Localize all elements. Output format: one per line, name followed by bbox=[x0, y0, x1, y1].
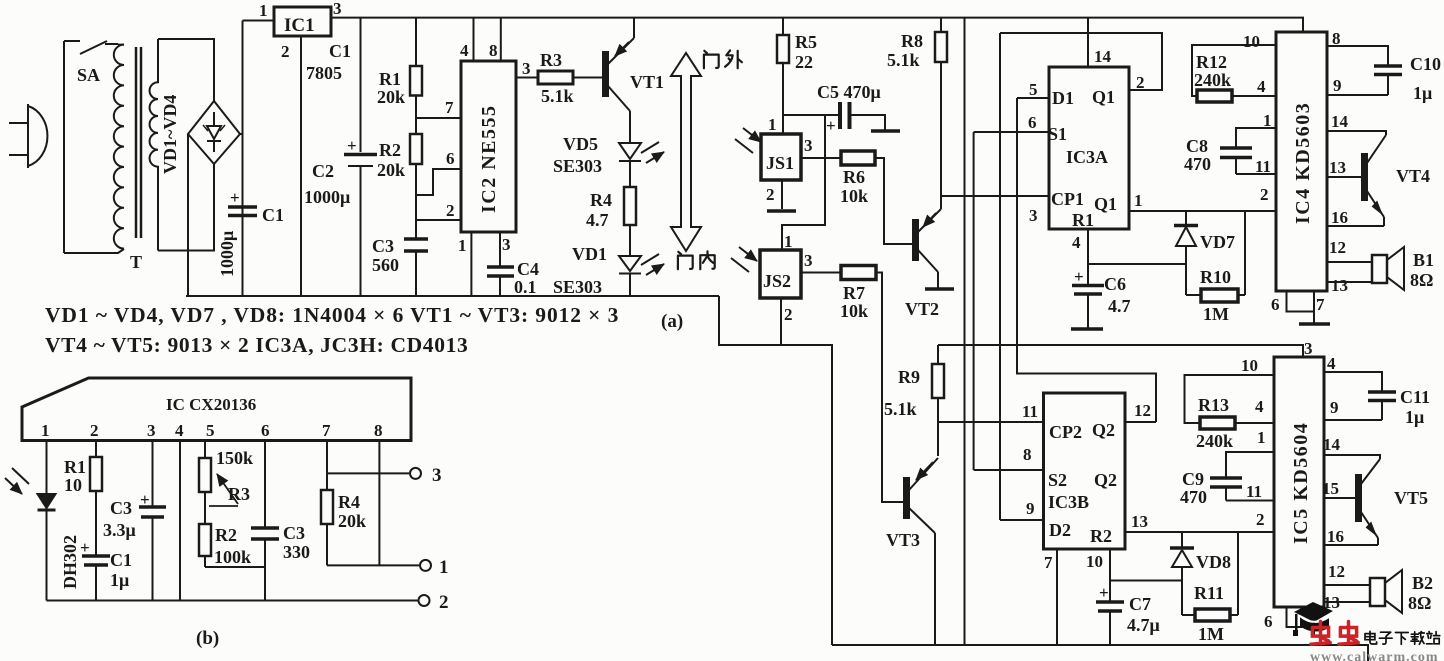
svg-text:+: + bbox=[347, 136, 357, 155]
svg-text:(a): (a) bbox=[661, 311, 683, 332]
svg-text:R2: R2 bbox=[379, 140, 401, 160]
AC plug SA bbox=[9, 104, 47, 168]
watermark site name bbox=[1365, 631, 1440, 644]
svg-text:6: 6 bbox=[1264, 612, 1273, 631]
wire IC3B pin7 down bbox=[1056, 549, 1058, 645]
wire JS1 pin1 to JS2 pin1 bbox=[782, 115, 825, 250]
wire pin1 DH302 bbox=[46, 441, 48, 494]
svg-text:4.7: 4.7 bbox=[1108, 296, 1131, 316]
svg-text:14: 14 bbox=[1331, 112, 1349, 131]
capacitor C3 560 bbox=[404, 220, 428, 296]
svg-text:1: 1 bbox=[1134, 191, 1143, 210]
wire JS1 pin3 bbox=[801, 157, 841, 159]
svg-text:C3: C3 bbox=[283, 523, 305, 543]
svg-text:16: 16 bbox=[1327, 527, 1344, 546]
svg-text:3: 3 bbox=[804, 251, 813, 270]
svg-text:9: 9 bbox=[1333, 76, 1342, 95]
svg-text:VT2: VT2 bbox=[905, 299, 939, 319]
svg-text:13: 13 bbox=[1331, 276, 1348, 295]
svg-text:1: 1 bbox=[439, 557, 449, 578]
photo interrupter JS1 bbox=[761, 134, 801, 180]
speaker B2 bbox=[1324, 601, 1370, 603]
svg-text:4: 4 bbox=[1072, 233, 1081, 252]
svg-text:C7: C7 bbox=[1129, 594, 1151, 614]
svg-text:D1: D1 bbox=[1052, 88, 1074, 108]
svg-text:VD5: VD5 bbox=[563, 134, 598, 154]
svg-text:R3: R3 bbox=[228, 484, 250, 504]
svg-text:SE303: SE303 bbox=[553, 156, 602, 176]
svg-text:C6: C6 bbox=[1104, 274, 1126, 294]
svg-text:8Ω: 8Ω bbox=[1410, 270, 1433, 290]
svg-text:10k: 10k bbox=[840, 301, 868, 321]
svg-text:(b): (b) bbox=[196, 628, 219, 649]
svg-text:4: 4 bbox=[175, 421, 184, 440]
svg-text:12: 12 bbox=[1134, 401, 1151, 420]
bottom ground rail bbox=[832, 645, 1368, 661]
ground C5 bbox=[871, 129, 900, 133]
svg-text:CP1: CP1 bbox=[1051, 189, 1084, 209]
wire Q1 to D2 vertical bbox=[999, 33, 1001, 520]
svg-text:1: 1 bbox=[784, 232, 793, 251]
capacitor C10 1u bbox=[1374, 66, 1402, 75]
svg-text:3: 3 bbox=[1304, 339, 1313, 358]
wire pin8 bbox=[378, 441, 380, 566]
svg-text:R7: R7 bbox=[843, 283, 865, 303]
svg-text:IC3B: IC3B bbox=[1048, 492, 1089, 512]
speaker B1 bbox=[1327, 281, 1372, 283]
svg-text:IC3A: IC3A bbox=[1066, 147, 1108, 167]
svg-text:VT3: VT3 bbox=[886, 530, 920, 550]
potentiometer 150k R3 bbox=[204, 441, 206, 459]
wire JS2 pin3 bbox=[801, 272, 841, 274]
svg-text:+: + bbox=[230, 188, 240, 207]
IC5 KD5604 box bbox=[1274, 357, 1324, 607]
svg-text:2: 2 bbox=[446, 201, 455, 220]
wire NE555 pin2 bbox=[416, 195, 461, 220]
diode VD8 bbox=[1172, 532, 1192, 615]
wire IC4 pin13 bbox=[1327, 176, 1362, 178]
svg-text:1: 1 bbox=[1263, 111, 1272, 130]
wire bridge left output down bbox=[187, 134, 189, 296]
label door-inside bbox=[678, 251, 715, 269]
svg-text:3: 3 bbox=[522, 59, 531, 78]
svg-text:2: 2 bbox=[784, 305, 793, 324]
svg-text:VD1 ~ VD4, VD7 , VD8: 1N4004 ×: VD1 ~ VD4, VD7 , VD8: 1N4004 × 6 VT1 ~ V… bbox=[45, 303, 619, 327]
svg-text:JS1: JS1 bbox=[766, 153, 794, 173]
svg-text:7: 7 bbox=[1044, 553, 1053, 572]
svg-text:C8: C8 bbox=[1186, 136, 1208, 156]
svg-text:150k: 150k bbox=[216, 448, 253, 468]
svg-text:VT1: VT1 bbox=[630, 72, 664, 92]
svg-text:5.1k: 5.1k bbox=[887, 50, 920, 70]
svg-text:SE303: SE303 bbox=[553, 277, 602, 297]
svg-text:C2: C2 bbox=[312, 161, 334, 181]
photo interrupter JS2 bbox=[760, 250, 801, 298]
svg-text:22: 22 bbox=[795, 52, 813, 72]
svg-text:10k: 10k bbox=[840, 186, 868, 206]
svg-text:1: 1 bbox=[41, 421, 50, 440]
wire D2 bbox=[1000, 519, 1044, 521]
wire +V line to IC1 bbox=[242, 21, 244, 297]
wire S2 bbox=[974, 469, 1044, 471]
resistor R4 20k bbox=[326, 473, 328, 490]
transformer secondary winding bbox=[150, 39, 158, 251]
wire NE555 pin6 step bbox=[416, 169, 461, 195]
IC4 KD5603 box bbox=[1276, 32, 1327, 291]
transformer core bbox=[136, 47, 141, 238]
capacitor C3 330 bbox=[264, 441, 266, 528]
wire IC5 pin4 right bbox=[1324, 372, 1382, 391]
LED VD5 SE303 bbox=[629, 111, 631, 143]
svg-text:B2: B2 bbox=[1412, 573, 1433, 593]
capacitor C4 0.1 bbox=[487, 232, 514, 296]
svg-text:15: 15 bbox=[1322, 479, 1339, 498]
svg-text:4.7: 4.7 bbox=[586, 210, 609, 230]
svg-text:9: 9 bbox=[1330, 398, 1339, 417]
svg-text:IC1: IC1 bbox=[284, 15, 315, 36]
wire D1 stub bbox=[1017, 97, 1049, 99]
resistor R1 10 bbox=[95, 441, 97, 458]
wire pin4 bbox=[179, 441, 181, 601]
capacitor C1 1000u bbox=[228, 207, 257, 216]
wire IC3B pin12 bbox=[1125, 421, 1156, 423]
wire IC4 pin14 bbox=[1327, 131, 1386, 135]
op-amp IC3A flip-flop box bbox=[1049, 67, 1129, 229]
svg-text:6: 6 bbox=[446, 149, 455, 168]
wire IC3A pin4 down bbox=[1087, 229, 1089, 284]
resistor R2 20k bbox=[415, 118, 417, 195]
svg-text:+: + bbox=[826, 116, 836, 135]
svg-text:11: 11 bbox=[1022, 402, 1038, 421]
svg-text:C1: C1 bbox=[110, 550, 132, 570]
ground IC5 pins 6 7 bbox=[1287, 607, 1315, 635]
resistor R13 240k loop bbox=[1185, 375, 1275, 423]
svg-text:R9: R9 bbox=[898, 367, 920, 387]
svg-text:R2: R2 bbox=[1090, 526, 1112, 546]
svg-text:R1: R1 bbox=[64, 457, 86, 477]
bottom rail power section bbox=[186, 295, 719, 297]
wire IC4 pin8 bbox=[1327, 46, 1388, 65]
switch SA bbox=[64, 41, 118, 54]
svg-text:2: 2 bbox=[1136, 73, 1145, 92]
svg-text:www.calwarm.com: www.calwarm.com bbox=[1310, 650, 1439, 661]
resistor R6 10k bbox=[841, 151, 875, 165]
svg-text:12: 12 bbox=[1329, 238, 1346, 257]
transistor VT4 bbox=[1362, 154, 1367, 200]
svg-text:4: 4 bbox=[1327, 354, 1336, 373]
wire IC4 pin16 bbox=[1327, 225, 1384, 227]
wire Q1 output pin1 bbox=[1129, 210, 1276, 212]
svg-text:Q1: Q1 bbox=[1094, 194, 1117, 214]
capacitor C6 4.7 bbox=[1072, 286, 1104, 295]
svg-text:1M: 1M bbox=[1203, 304, 1229, 324]
svg-text:12: 12 bbox=[1328, 562, 1345, 581]
svg-text:C5 470μ: C5 470μ bbox=[817, 82, 881, 102]
svg-text:1: 1 bbox=[1257, 428, 1266, 447]
resistor R2 100k bbox=[199, 524, 211, 556]
svg-text:14: 14 bbox=[1323, 435, 1341, 454]
wire S1 to S2 vertical bbox=[973, 132, 975, 470]
wire IC1 pin2 down bbox=[300, 36, 302, 296]
resistor R10 1M bbox=[1186, 294, 1201, 296]
svg-text:10: 10 bbox=[64, 475, 82, 495]
wire IC5 pin12 bbox=[1324, 584, 1370, 586]
svg-text:Q2: Q2 bbox=[1094, 470, 1117, 490]
svg-text:7805: 7805 bbox=[306, 63, 342, 83]
watermark chongchong red bbox=[1311, 622, 1358, 645]
capacitor C11 1u bbox=[1368, 392, 1396, 401]
svg-text:5: 5 bbox=[1029, 80, 1038, 99]
transformer T primary winding bbox=[114, 45, 124, 249]
wire IC3B pin10 down with C7 bbox=[1109, 549, 1111, 601]
resistor R12 240k loop bbox=[1192, 45, 1276, 96]
svg-text:14: 14 bbox=[1094, 47, 1112, 66]
svg-text:R5: R5 bbox=[795, 32, 817, 52]
wire D1 to Q2-bar loop bbox=[1017, 98, 1156, 422]
svg-text:D2: D2 bbox=[1049, 520, 1071, 540]
svg-text:R8: R8 bbox=[901, 31, 923, 51]
svg-text:5.1k: 5.1k bbox=[541, 86, 574, 106]
svg-text:4: 4 bbox=[1255, 397, 1264, 416]
svg-text:R1: R1 bbox=[379, 69, 401, 89]
svg-text:0.1: 0.1 bbox=[514, 277, 537, 297]
svg-text:R10: R10 bbox=[1200, 267, 1231, 287]
wire JS2 pin2 bbox=[780, 298, 782, 344]
wire C6 to VD7 branch bbox=[1088, 263, 1186, 265]
svg-text:2: 2 bbox=[1256, 510, 1265, 529]
svg-text:R11: R11 bbox=[1194, 583, 1224, 603]
svg-text:8: 8 bbox=[1332, 29, 1341, 48]
svg-text:C4: C4 bbox=[517, 259, 539, 279]
wire rail to IC5 pin3 bbox=[938, 345, 1303, 357]
resistor R8 5.1k bbox=[940, 18, 942, 32]
svg-text:R13: R13 bbox=[1198, 395, 1229, 415]
svg-text:3: 3 bbox=[1029, 206, 1038, 225]
svg-text:+: + bbox=[80, 538, 90, 557]
svg-text:100k: 100k bbox=[214, 547, 251, 567]
svg-text:20k: 20k bbox=[338, 511, 366, 531]
svg-text:6: 6 bbox=[1028, 113, 1037, 132]
top +5V rail from IC1 pin3 bbox=[331, 18, 1303, 32]
svg-text:VD1~VD4: VD1~VD4 bbox=[160, 95, 180, 174]
resistor R9 5.1k bbox=[937, 345, 939, 364]
wire IC3B pin13 R2 output bbox=[1125, 531, 1274, 533]
svg-text:C10: C10 bbox=[1410, 54, 1441, 74]
wire IC5 pin16 bbox=[1324, 544, 1378, 546]
svg-text:3: 3 bbox=[333, 0, 342, 18]
svg-text:3: 3 bbox=[147, 421, 156, 440]
svg-text:3: 3 bbox=[432, 465, 442, 486]
svg-text:2: 2 bbox=[90, 421, 99, 440]
svg-text:5.1k: 5.1k bbox=[884, 399, 917, 419]
svg-text:10: 10 bbox=[1241, 356, 1258, 375]
svg-text:7: 7 bbox=[322, 421, 331, 440]
transistor VT5 bbox=[1356, 475, 1361, 521]
svg-text:20k: 20k bbox=[377, 87, 405, 107]
svg-text:IC5 KD5604: IC5 KD5604 bbox=[1290, 422, 1312, 544]
svg-text:3: 3 bbox=[804, 136, 813, 155]
svg-text:20k: 20k bbox=[377, 160, 405, 180]
svg-text:C3: C3 bbox=[110, 498, 132, 518]
ground C6 bbox=[1071, 327, 1103, 331]
svg-text:330: 330 bbox=[283, 542, 310, 562]
svg-text:1000μ: 1000μ bbox=[217, 231, 237, 277]
resistor R7 10k bbox=[841, 266, 876, 280]
wire NE555 pin4 pin8 up bbox=[474, 18, 501, 61]
svg-text:+: + bbox=[1099, 583, 1109, 602]
capacitor C8 470 bbox=[1236, 128, 1276, 174]
svg-text:VT4 ~ VT5: 9013 × 2 IC3A, JC3: VT4 ~ VT5: 9013 × 2 IC3A, JC3H: CD4013 bbox=[45, 333, 468, 357]
svg-text:240k: 240k bbox=[1196, 431, 1233, 451]
label door-outside bbox=[704, 50, 742, 68]
capacitor C2 1000u bbox=[344, 18, 377, 296]
svg-text:S1: S1 bbox=[1048, 124, 1067, 144]
svg-text:7: 7 bbox=[1316, 295, 1325, 314]
svg-text:+: + bbox=[1074, 267, 1084, 286]
wire C7 branch to VD8 bbox=[1110, 580, 1182, 582]
svg-text:T: T bbox=[130, 252, 142, 272]
svg-text:R3: R3 bbox=[540, 50, 562, 70]
svg-text:VT5: VT5 bbox=[1394, 488, 1428, 508]
svg-text:10: 10 bbox=[1243, 32, 1260, 51]
resistor R5 22 bbox=[782, 18, 784, 35]
svg-text:6: 6 bbox=[1271, 295, 1280, 314]
wire IC1 pin1 bbox=[243, 20, 275, 22]
wire bbox=[629, 225, 631, 256]
wire terminal 1 bbox=[327, 564, 419, 566]
wire R6 to VT2 base bbox=[875, 158, 914, 244]
flip-flop IC3B box bbox=[1044, 393, 1126, 549]
svg-text:8: 8 bbox=[489, 41, 498, 60]
svg-text:C1: C1 bbox=[329, 41, 351, 61]
svg-text:JS2: JS2 bbox=[763, 271, 791, 291]
capacitor C1 1u bbox=[82, 556, 110, 565]
resistor R11 1M bbox=[1182, 614, 1195, 616]
svg-text:R2: R2 bbox=[215, 525, 237, 545]
svg-text:240k: 240k bbox=[1194, 70, 1231, 90]
svg-text:5: 5 bbox=[206, 421, 215, 440]
wire bridge right output bbox=[240, 133, 243, 135]
svg-text:8Ω: 8Ω bbox=[1408, 593, 1431, 613]
IC1 7805 box bbox=[274, 7, 331, 36]
svg-text:IC4 KD5603: IC4 KD5603 bbox=[1292, 102, 1314, 224]
wire NE555 pin7 bbox=[416, 117, 461, 119]
long vertical wire V+ bbox=[964, 18, 966, 645]
svg-text:CP2: CP2 bbox=[1049, 422, 1082, 442]
svg-text:2: 2 bbox=[281, 42, 290, 61]
wire IC5 pin15 bbox=[1324, 497, 1356, 499]
door double arrow bbox=[671, 53, 701, 251]
wire pin7 to terminal 3 bbox=[327, 441, 409, 474]
light arrows JS2 bbox=[731, 247, 757, 272]
svg-text:11: 11 bbox=[1255, 157, 1271, 176]
svg-text:C9: C9 bbox=[1182, 469, 1204, 489]
svg-text:1000μ: 1000μ bbox=[304, 187, 350, 207]
svg-text:4: 4 bbox=[1257, 77, 1266, 96]
svg-text:8: 8 bbox=[374, 421, 383, 440]
resistor R4 4.7 bbox=[624, 187, 636, 225]
capacitor C5 470u bbox=[840, 102, 850, 129]
svg-text:R1: R1 bbox=[1072, 210, 1094, 230]
svg-text:3: 3 bbox=[502, 235, 511, 254]
svg-text:470: 470 bbox=[1180, 487, 1207, 507]
svg-text:R4: R4 bbox=[338, 492, 360, 512]
svg-text:1: 1 bbox=[458, 236, 467, 255]
svg-text:VD8: VD8 bbox=[1196, 552, 1231, 572]
svg-text:R6: R6 bbox=[843, 167, 865, 187]
wire CP2 bbox=[938, 421, 1044, 423]
watermark logo graduation cap bbox=[1293, 602, 1333, 636]
svg-text:Q2: Q2 bbox=[1092, 420, 1115, 440]
wire IC3A pin14 bbox=[1087, 18, 1089, 67]
svg-text:2: 2 bbox=[1260, 185, 1269, 204]
wire S1 bbox=[974, 131, 1049, 133]
svg-text:+: + bbox=[140, 490, 150, 509]
svg-text:2: 2 bbox=[766, 185, 775, 204]
svg-text:VT4: VT4 bbox=[1396, 166, 1430, 186]
svg-text:C3: C3 bbox=[372, 236, 394, 256]
svg-text:13: 13 bbox=[1131, 512, 1148, 531]
svg-text:3.3μ: 3.3μ bbox=[103, 520, 136, 540]
capacitor C9 470 bbox=[1226, 452, 1274, 501]
wire secondary loop to bridge bbox=[158, 39, 214, 251]
LED VD1 SE303 bbox=[619, 256, 641, 296]
wire IC3A pin2 loop bbox=[1000, 33, 1162, 90]
svg-text:13: 13 bbox=[1329, 158, 1346, 177]
diode VD7 bbox=[1176, 211, 1196, 295]
svg-text:VD1: VD1 bbox=[572, 244, 607, 264]
resistor R3 5.1k bbox=[516, 77, 538, 79]
bottom rail b and terminal 2 bbox=[47, 600, 418, 602]
svg-text:C1: C1 bbox=[262, 205, 284, 225]
light arrows JS1 bbox=[735, 128, 761, 153]
capacitor C3 3.3u bbox=[152, 441, 154, 507]
wire JS1 pin2 ground bbox=[781, 180, 783, 209]
wire R7 to VT3 base bbox=[876, 273, 905, 503]
svg-text:8: 8 bbox=[1023, 445, 1032, 464]
bridge rectifier VD1~VD4 bbox=[188, 101, 240, 164]
svg-text:1M: 1M bbox=[1198, 624, 1224, 644]
ground VT2 bbox=[925, 287, 954, 291]
svg-text:R4: R4 bbox=[590, 190, 612, 210]
wire IC4 pin12 bbox=[1327, 261, 1372, 263]
svg-text:1: 1 bbox=[259, 1, 268, 20]
transistor VT1 bbox=[603, 52, 608, 96]
svg-text:10: 10 bbox=[1086, 552, 1103, 571]
svg-text:9: 9 bbox=[1026, 499, 1035, 518]
svg-text:4: 4 bbox=[460, 41, 469, 60]
svg-text:1: 1 bbox=[768, 115, 777, 134]
wire CP1 bbox=[941, 195, 1049, 197]
svg-text:16: 16 bbox=[1331, 208, 1348, 227]
svg-text:R12: R12 bbox=[1196, 52, 1227, 72]
svg-text:560: 560 bbox=[372, 255, 399, 275]
svg-text:S2: S2 bbox=[1048, 470, 1067, 490]
IC2 NE555 box bbox=[461, 61, 516, 232]
node JS1 pin1 wire bbox=[783, 114, 839, 116]
svg-text:SA: SA bbox=[77, 65, 100, 85]
transistor VT3 bbox=[904, 478, 909, 518]
svg-text:DH302: DH302 bbox=[60, 535, 80, 589]
svg-text:IC CX20136: IC CX20136 bbox=[166, 395, 256, 414]
wire NE555 pin1 down bbox=[470, 232, 472, 296]
svg-text:2: 2 bbox=[439, 592, 449, 613]
transistor VT2 bbox=[913, 220, 918, 260]
svg-text:C11: C11 bbox=[1400, 387, 1430, 407]
svg-text:B1: B1 bbox=[1413, 250, 1434, 270]
capacitor C7 4.7u bbox=[1096, 602, 1124, 611]
wire IC5 pin14 bbox=[1324, 455, 1380, 459]
